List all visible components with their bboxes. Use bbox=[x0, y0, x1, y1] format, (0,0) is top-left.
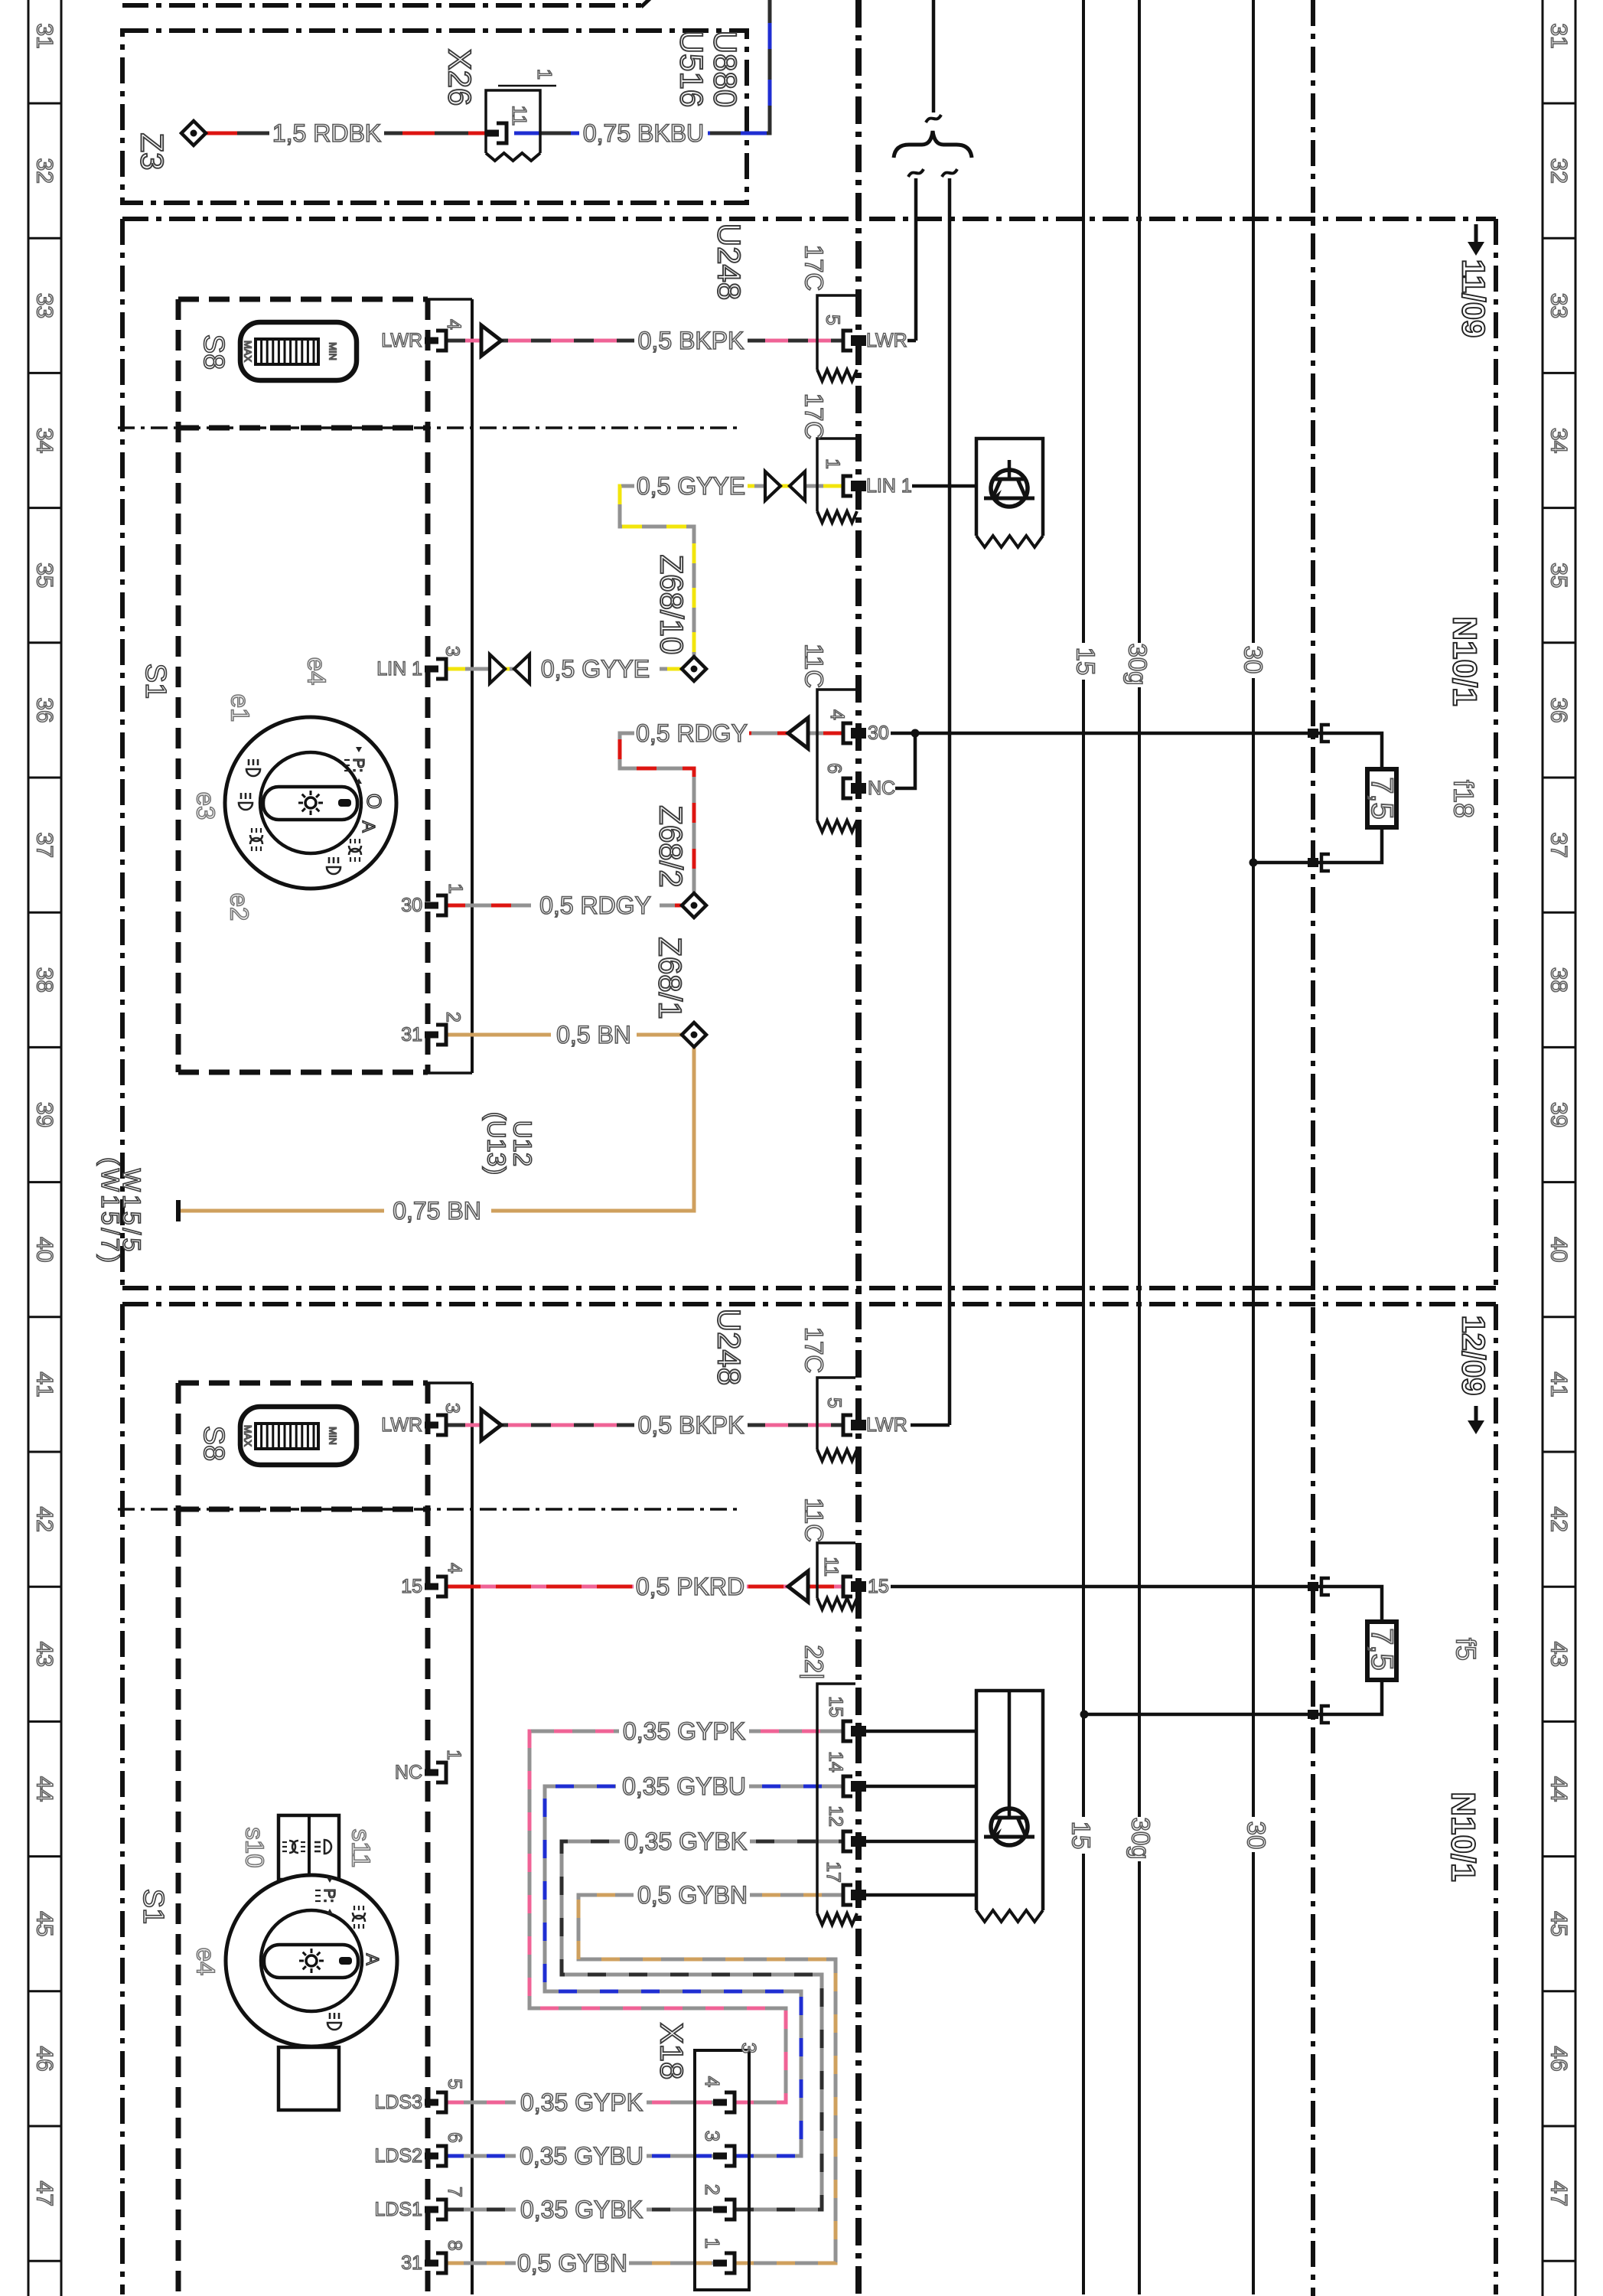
fuse f5 return to 15 bus bbox=[1084, 1678, 1382, 1714]
svg-text:30: 30 bbox=[401, 895, 422, 916]
branch to 17C LWR (upper) bbox=[914, 178, 918, 341]
svg-text:17C: 17C bbox=[800, 245, 829, 292]
svg-text:O: O bbox=[363, 794, 386, 809]
svg-text:0,5 PKRD: 0,5 PKRD bbox=[636, 1573, 744, 1600]
svg-text:(W15/7): (W15/7) bbox=[96, 1157, 124, 1266]
inner divider below S8 (upper) bbox=[118, 426, 742, 429]
wire 0,5 GYYE 17C pin1 loop to Z68/10 bbox=[620, 486, 843, 657]
left ruler tick 14 bbox=[28, 1990, 61, 1992]
svg-text:6: 6 bbox=[444, 2132, 465, 2143]
svg-text:42: 42 bbox=[32, 1507, 57, 1532]
left ruler tick 6 bbox=[28, 912, 61, 914]
S1 pin 4 15 bbox=[425, 1583, 438, 1590]
svg-text:0,5 RDGY: 0,5 RDGY bbox=[636, 719, 748, 747]
svg-text:39: 39 bbox=[32, 1102, 57, 1127]
fuse f5 7,5A bbox=[1367, 1622, 1396, 1680]
svg-text:e1: e1 bbox=[226, 694, 255, 722]
wire 0,5 GYYE S1 pin3 to Z68/10 bbox=[445, 667, 682, 671]
svg-text:5: 5 bbox=[823, 1397, 845, 1408]
svg-text:15: 15 bbox=[825, 1696, 846, 1717]
svg-text:30: 30 bbox=[1240, 646, 1268, 674]
right ruler tick 13 bbox=[1543, 1855, 1575, 1857]
svg-text:15: 15 bbox=[1072, 647, 1100, 676]
left ruler tick 1 bbox=[28, 237, 61, 240]
svg-text:5: 5 bbox=[444, 2079, 465, 2089]
S1 pin 6 LDS2 bbox=[425, 2153, 438, 2160]
svg-text:31: 31 bbox=[32, 23, 57, 48]
N10/1 left boundary dash-dot bbox=[1311, 0, 1315, 2296]
svg-text:Z68/10: Z68/10 bbox=[654, 555, 690, 655]
wire 0,35 GYBK loop LDS1-X18-22pin12 bbox=[445, 2208, 727, 2212]
svg-text:e3: e3 bbox=[192, 792, 220, 820]
svg-text:17: 17 bbox=[823, 1861, 844, 1883]
wire 15 feed 11C pin11 to fuse f5 bbox=[863, 1587, 1382, 1622]
svg-text:11: 11 bbox=[820, 1557, 842, 1577]
direction triangle BKPK upper bbox=[481, 325, 501, 356]
wire LIN 1 black to transistor box (upper) bbox=[911, 484, 976, 488]
X18 pin 2 bbox=[713, 2206, 727, 2213]
svg-text:LWR: LWR bbox=[866, 1414, 907, 1436]
wire 0,5 PKRD S1 pin4 to 11C pin11 bbox=[445, 1585, 843, 1589]
svg-text:4: 4 bbox=[444, 1563, 465, 1574]
svg-text:0,35 GYBK: 0,35 GYBK bbox=[624, 1828, 747, 1855]
right ruler frame bbox=[1542, 0, 1544, 2296]
svg-text:LWR: LWR bbox=[381, 330, 422, 351]
splice Z68/10 bbox=[682, 657, 706, 681]
splice Z68/1 bbox=[682, 1022, 706, 1047]
right ruler tick 3 bbox=[1543, 507, 1575, 509]
right ruler tick 10 bbox=[1543, 1451, 1575, 1453]
svg-text:2: 2 bbox=[701, 2184, 724, 2195]
svg-text:LDS1: LDS1 bbox=[374, 2199, 422, 2220]
S1 connector rail lower bbox=[428, 1381, 472, 1384]
svg-text:3: 3 bbox=[441, 646, 463, 657]
svg-text:15: 15 bbox=[401, 1576, 422, 1597]
direction triangle BKPK lower bbox=[481, 1410, 501, 1440]
svg-text:0,35 GYPK: 0,35 GYPK bbox=[623, 1717, 745, 1745]
svg-text:U12: U12 bbox=[509, 1120, 537, 1167]
S8 dimmer box upper bbox=[178, 297, 428, 302]
svg-text:15: 15 bbox=[868, 1576, 889, 1597]
junction 30/NC bbox=[911, 729, 920, 738]
svg-text:39: 39 bbox=[1546, 1102, 1572, 1127]
left ruler tick 11 bbox=[28, 1586, 61, 1588]
svg-text:NC: NC bbox=[395, 1762, 422, 1783]
left ruler tick 4 bbox=[28, 641, 61, 644]
svg-text:6: 6 bbox=[823, 763, 845, 774]
svg-text:0,75 BN: 0,75 BN bbox=[393, 1197, 481, 1225]
arrow to sheet 12/09 bbox=[1474, 1406, 1478, 1422]
fuse f18 return to 30 bus bbox=[1253, 827, 1382, 863]
svg-text:17C: 17C bbox=[800, 393, 829, 440]
potentiometer S8 upper bbox=[240, 322, 357, 380]
svg-text:12/09: 12/09 bbox=[1456, 1315, 1492, 1395]
right ruler tick 1 bbox=[1543, 237, 1575, 240]
svg-text:32: 32 bbox=[1546, 158, 1572, 184]
svg-text:47: 47 bbox=[1546, 2181, 1572, 2206]
svg-text:34: 34 bbox=[32, 428, 57, 453]
svg-text:7,5: 7,5 bbox=[1365, 777, 1399, 820]
svg-text:1: 1 bbox=[533, 69, 556, 80]
svg-text:LDS3: LDS3 bbox=[374, 2092, 422, 2113]
svg-text:45: 45 bbox=[1546, 1911, 1572, 1936]
svg-text:7,5: 7,5 bbox=[1365, 1628, 1399, 1671]
svg-text:4: 4 bbox=[826, 709, 848, 720]
svg-text:33: 33 bbox=[1546, 293, 1572, 318]
wire 0,35 GYPK loop LDS3-X18-22pin15 bbox=[445, 2101, 727, 2105]
svg-text:11: 11 bbox=[508, 106, 531, 126]
branch to 17C LWR (lower) bbox=[948, 178, 952, 1425]
svg-text:30g: 30g bbox=[1127, 1817, 1155, 1859]
svg-text:3: 3 bbox=[441, 1403, 463, 1414]
svg-text:43: 43 bbox=[32, 1642, 57, 1667]
svg-text:N10/1: N10/1 bbox=[1445, 1792, 1482, 1881]
svg-text:12: 12 bbox=[825, 1805, 846, 1827]
U248 upper module box (11/09 sheet frame) bbox=[122, 217, 1496, 221]
svg-text:P:: P: bbox=[321, 1889, 337, 1903]
left ruler tick 15 bbox=[28, 2125, 61, 2128]
svg-text:7: 7 bbox=[444, 2187, 465, 2197]
left ruler tick 0 bbox=[28, 103, 61, 105]
right ruler tick 8 bbox=[1543, 1181, 1575, 1183]
wire NC join (upper) bbox=[863, 733, 915, 788]
wire 0,5 RDGY S1 pin1 to Z68/2 bbox=[445, 904, 682, 908]
break mark left branch bbox=[908, 169, 924, 177]
svg-text:0,5 BN: 0,5 BN bbox=[556, 1021, 631, 1049]
connector 11C lower pin11 bbox=[817, 1543, 855, 1598]
left ruler tick 5 bbox=[28, 777, 61, 779]
right ruler tick 9 bbox=[1543, 1316, 1575, 1318]
svg-text:42: 42 bbox=[1546, 1507, 1572, 1532]
svg-text:33: 33 bbox=[32, 293, 57, 318]
ground node Z3 bbox=[181, 121, 206, 145]
svg-text:4: 4 bbox=[701, 2076, 724, 2087]
light switch dial lower with stalk bbox=[279, 1815, 339, 1880]
W15/5 terminal tick bbox=[176, 1200, 181, 1221]
svg-text:Z68/2: Z68/2 bbox=[653, 805, 689, 887]
arrow to sheet 11/09 bbox=[1474, 224, 1478, 243]
svg-text:3: 3 bbox=[738, 2043, 761, 2053]
left ruler tick 8 bbox=[28, 1181, 61, 1183]
svg-text:U516: U516 bbox=[674, 31, 710, 107]
N10/1 pin at 15 feed bbox=[1308, 1582, 1318, 1591]
svg-text:0,5 BKPK: 0,5 BKPK bbox=[638, 327, 744, 354]
inner divider below S8 (lower) bbox=[118, 1508, 742, 1511]
svg-text:1: 1 bbox=[443, 1750, 464, 1760]
wires 22 connector to transistor box (lower) bbox=[863, 1730, 976, 1733]
svg-text:1: 1 bbox=[445, 883, 466, 894]
S1 pin 8 31 bbox=[425, 2260, 438, 2267]
wire LWR black to twisted branch (upper) bbox=[903, 339, 916, 343]
svg-text:X18: X18 bbox=[654, 2023, 690, 2080]
S1 pin 7 LDS1 bbox=[425, 2206, 438, 2213]
svg-text:43: 43 bbox=[1546, 1642, 1572, 1667]
svg-text:30: 30 bbox=[868, 722, 889, 744]
svg-text:0,5 RDGY: 0,5 RDGY bbox=[539, 892, 651, 919]
light switch dial e-group upper bbox=[225, 717, 396, 889]
svg-text:11/09: 11/09 bbox=[1456, 259, 1492, 338]
svg-text:31: 31 bbox=[401, 2252, 422, 2274]
right ruler tick 0 bbox=[1543, 103, 1575, 105]
left ruler tick 10 bbox=[28, 1451, 61, 1453]
right ruler tick 5 bbox=[1543, 777, 1575, 779]
transistor box lower bbox=[976, 1691, 1043, 1910]
svg-text:U880: U880 bbox=[708, 31, 744, 107]
svg-text:11C: 11C bbox=[800, 1498, 829, 1542]
bus line 30g bbox=[1138, 0, 1141, 2294]
svg-text:U248: U248 bbox=[712, 1309, 748, 1385]
svg-text:5: 5 bbox=[822, 315, 843, 325]
svg-text:1: 1 bbox=[822, 458, 843, 469]
left ruler tick 2 bbox=[28, 372, 61, 374]
S8 dimmer box lower bbox=[178, 1381, 428, 1386]
direction triangles GYYE lower bbox=[490, 654, 505, 683]
break mark stem bbox=[926, 115, 941, 122]
right ruler tick 2 bbox=[1543, 372, 1575, 374]
N10/1 pin at fuse f5 return bbox=[1308, 1710, 1318, 1719]
left ruler tick 3 bbox=[28, 507, 61, 509]
svg-text:34: 34 bbox=[1546, 428, 1572, 453]
direction triangle RDGY upper bbox=[788, 718, 808, 748]
X18 pin 4 bbox=[713, 2099, 727, 2106]
left ruler frame bbox=[28, 0, 30, 2296]
S1 pin 5 LDS3 bbox=[425, 2099, 438, 2106]
svg-text:0,5 GYYE: 0,5 GYYE bbox=[541, 655, 650, 683]
svg-text:17C: 17C bbox=[800, 1327, 829, 1374]
bus line 30 bbox=[1252, 0, 1255, 2294]
svg-text:40: 40 bbox=[32, 1237, 57, 1262]
svg-text:s10: s10 bbox=[241, 1827, 269, 1867]
break mark right branch bbox=[942, 169, 957, 177]
svg-text:LDS2: LDS2 bbox=[374, 2145, 422, 2167]
potentiometer S8 lower bbox=[240, 1407, 357, 1465]
svg-text:0,35 GYBU: 0,35 GYBU bbox=[622, 1773, 746, 1800]
X18 pin 1 bbox=[713, 2260, 727, 2267]
top cut-off box bottom edge bbox=[122, 3, 641, 8]
label gaps bbox=[269, 119, 384, 147]
wire 0,75 BKBU X26 to U880 edge and up bbox=[514, 0, 770, 133]
splice Z68/2 bbox=[682, 893, 706, 918]
bus line 15 bbox=[1082, 0, 1085, 2294]
wire 0,5 BKPK S8 lower to 17C pin5 bbox=[445, 1424, 843, 1427]
svg-text:NC: NC bbox=[868, 778, 895, 799]
svg-text:MIN: MIN bbox=[327, 1427, 339, 1445]
U248 lower module box (12/09 sheet frame) bbox=[122, 1302, 1496, 1306]
left ruler tick 9 bbox=[28, 1316, 61, 1318]
right ruler tick 6 bbox=[1543, 912, 1575, 914]
svg-text:S8: S8 bbox=[197, 334, 230, 370]
X18 pin 3 bbox=[713, 2153, 727, 2160]
connector X26 bbox=[486, 90, 540, 153]
svg-text:8: 8 bbox=[444, 2240, 465, 2251]
svg-text:41: 41 bbox=[1546, 1371, 1572, 1397]
svg-text:A: A bbox=[359, 820, 379, 833]
svg-text:MIN: MIN bbox=[327, 342, 339, 360]
svg-text:0,5 GYBN: 0,5 GYBN bbox=[517, 2249, 627, 2277]
svg-text:f18: f18 bbox=[1448, 780, 1480, 818]
svg-text:s11: s11 bbox=[347, 1829, 376, 1868]
right ruler tick 7 bbox=[1543, 1046, 1575, 1049]
svg-text:LWR: LWR bbox=[866, 330, 907, 351]
svg-text:e4: e4 bbox=[303, 657, 331, 686]
left ruler tick 12 bbox=[28, 1720, 61, 1723]
direction triangle PKRD bbox=[788, 1571, 808, 1602]
S1 pin 1 NC bbox=[425, 1769, 438, 1776]
connector 17C upper-b pin1 bbox=[817, 439, 855, 511]
svg-text:LWR: LWR bbox=[381, 1414, 422, 1436]
svg-text:0,5 BKPK: 0,5 BKPK bbox=[638, 1411, 744, 1439]
central firewall dash-dot line U248 right edge bbox=[855, 0, 862, 2296]
connector X18 bbox=[695, 2050, 749, 2290]
svg-text:30: 30 bbox=[1243, 1821, 1271, 1850]
svg-text:15: 15 bbox=[1067, 1821, 1096, 1850]
wire 0,5 GYBN loop 31-X18-22pin17 bbox=[445, 2262, 727, 2265]
svg-text:e4: e4 bbox=[192, 1948, 220, 1976]
svg-text:0,5 GYBN: 0,5 GYBN bbox=[637, 1881, 748, 1909]
svg-text:N10/1: N10/1 bbox=[1446, 616, 1484, 706]
svg-text:38: 38 bbox=[1546, 967, 1572, 993]
svg-text:MAX: MAX bbox=[243, 1425, 254, 1447]
wire 0,35 GYBU loop LDS2-X18-22pin14 bbox=[445, 2154, 727, 2158]
svg-text:22|: 22| bbox=[800, 1645, 829, 1679]
right ruler tick 4 bbox=[1543, 641, 1575, 644]
svg-text:0,75 BKBU: 0,75 BKBU bbox=[583, 119, 704, 147]
svg-text:30g: 30g bbox=[1124, 643, 1152, 685]
svg-text:46: 46 bbox=[32, 2046, 57, 2071]
junction on 15 bus bbox=[1080, 1711, 1089, 1719]
svg-text:X26: X26 bbox=[442, 49, 478, 106]
svg-text:44: 44 bbox=[1546, 1776, 1572, 1802]
left ruler tick 13 bbox=[28, 1855, 61, 1857]
S1 connector rail upper bbox=[428, 298, 472, 301]
svg-text:36: 36 bbox=[32, 697, 57, 722]
svg-text:11C: 11C bbox=[800, 644, 829, 688]
wire LWR black to twisted branch (lower) bbox=[911, 1424, 950, 1427]
svg-text:0,35 GYPK: 0,35 GYPK bbox=[520, 2089, 643, 2116]
fuse f18 7,5A bbox=[1367, 769, 1396, 827]
svg-text:32: 32 bbox=[32, 158, 57, 184]
svg-text:LIN 1: LIN 1 bbox=[376, 658, 422, 680]
svg-text:14: 14 bbox=[825, 1751, 846, 1773]
twisted pair upper stem bbox=[932, 0, 936, 113]
right ruler tick 14 bbox=[1543, 1990, 1575, 1992]
svg-text:LIN 1: LIN 1 bbox=[866, 475, 912, 497]
N10/1 pin at fuse f18 return bbox=[1308, 858, 1318, 867]
S1 pin 3 LIN 1 bbox=[425, 666, 438, 673]
connector 22 pins 15/14/12/17 bbox=[817, 1684, 855, 1913]
svg-text:MAX: MAX bbox=[243, 341, 254, 363]
svg-text:A: A bbox=[363, 1953, 383, 1965]
svg-text:S1: S1 bbox=[139, 664, 171, 699]
svg-text:37: 37 bbox=[32, 833, 57, 858]
svg-text:38: 38 bbox=[32, 967, 57, 993]
S8 pin 4 LWR upper bbox=[425, 338, 438, 344]
svg-text:3: 3 bbox=[701, 2131, 724, 2141]
svg-text:47: 47 bbox=[32, 2181, 57, 2206]
svg-text:0,35 GYBU: 0,35 GYBU bbox=[520, 2142, 643, 2170]
connector 17C upper-a pin5 bbox=[817, 295, 855, 370]
svg-text:Z68/1: Z68/1 bbox=[653, 937, 689, 1019]
svg-text:S8: S8 bbox=[197, 1426, 230, 1461]
svg-text:0,35 GYBK: 0,35 GYBK bbox=[520, 2196, 643, 2223]
wire 0,5 BKPK S8 upper to 17C pin5 bbox=[445, 339, 843, 343]
N10/1 pin at 30 feed bbox=[1308, 729, 1318, 738]
S8 pin 3 LWR lower bbox=[425, 1422, 438, 1429]
svg-text:1: 1 bbox=[701, 2238, 724, 2249]
direction triangles GYYE upper bbox=[765, 471, 780, 501]
junction on 30 bus bbox=[1249, 859, 1258, 867]
svg-text:41: 41 bbox=[32, 1371, 57, 1397]
svg-text:31: 31 bbox=[401, 1024, 422, 1045]
svg-text:1,5 RDBK: 1,5 RDBK bbox=[272, 119, 381, 147]
svg-text:0,5 GYYE: 0,5 GYYE bbox=[637, 472, 745, 500]
connector 17C lower pin5 bbox=[817, 1378, 855, 1450]
right ruler tick 12 bbox=[1543, 1720, 1575, 1723]
right ruler tick 15 bbox=[1543, 2125, 1575, 2128]
wire 0,5 RDGY 11C pin4 loop to Z68/2 bbox=[620, 733, 843, 893]
S1 pin 2 31 bbox=[425, 1032, 438, 1039]
svg-text:f5: f5 bbox=[1451, 1638, 1482, 1661]
transistor box upper (LIN master) bbox=[976, 439, 1043, 536]
connector 11C upper pins 4/6 bbox=[817, 690, 855, 820]
svg-text:S1: S1 bbox=[137, 1889, 169, 1924]
svg-text:40: 40 bbox=[1546, 1237, 1572, 1262]
svg-text:(U13): (U13) bbox=[483, 1112, 511, 1176]
wire 0,5 BN S1 pin2 to Z68/1 bbox=[445, 1033, 682, 1037]
loom brace bbox=[894, 131, 972, 158]
svg-text:P:: P: bbox=[350, 758, 367, 773]
svg-text:36: 36 bbox=[1546, 697, 1572, 722]
svg-text:e2: e2 bbox=[226, 893, 254, 921]
wire 0,75 BN Z68/1 to W15/5 bbox=[178, 1047, 694, 1211]
svg-text:45: 45 bbox=[32, 1911, 57, 1936]
svg-text:U248: U248 bbox=[712, 223, 748, 300]
svg-text:31: 31 bbox=[1546, 23, 1572, 48]
svg-text:35: 35 bbox=[32, 563, 57, 588]
svg-text:46: 46 bbox=[1546, 2046, 1572, 2071]
svg-text:4: 4 bbox=[443, 319, 464, 330]
U880/U516 module box bbox=[122, 31, 747, 203]
left ruler tick 16 bbox=[28, 2260, 61, 2262]
wire 1,5 RDBK from Z3 to X26 bbox=[205, 132, 496, 135]
svg-text:44: 44 bbox=[32, 1776, 57, 1802]
right ruler tick 16 bbox=[1543, 2260, 1575, 2262]
right ruler tick 11 bbox=[1543, 1586, 1575, 1588]
svg-text:35: 35 bbox=[1546, 563, 1572, 588]
svg-text:Z3: Z3 bbox=[135, 132, 171, 170]
svg-text:2: 2 bbox=[442, 1012, 464, 1022]
left ruler tick 7 bbox=[28, 1046, 61, 1049]
S1 pin 1 30 bbox=[425, 902, 438, 909]
svg-text:37: 37 bbox=[1546, 833, 1572, 858]
wire 30 feed 11C pin4 to fuse f18 bbox=[863, 733, 1382, 769]
